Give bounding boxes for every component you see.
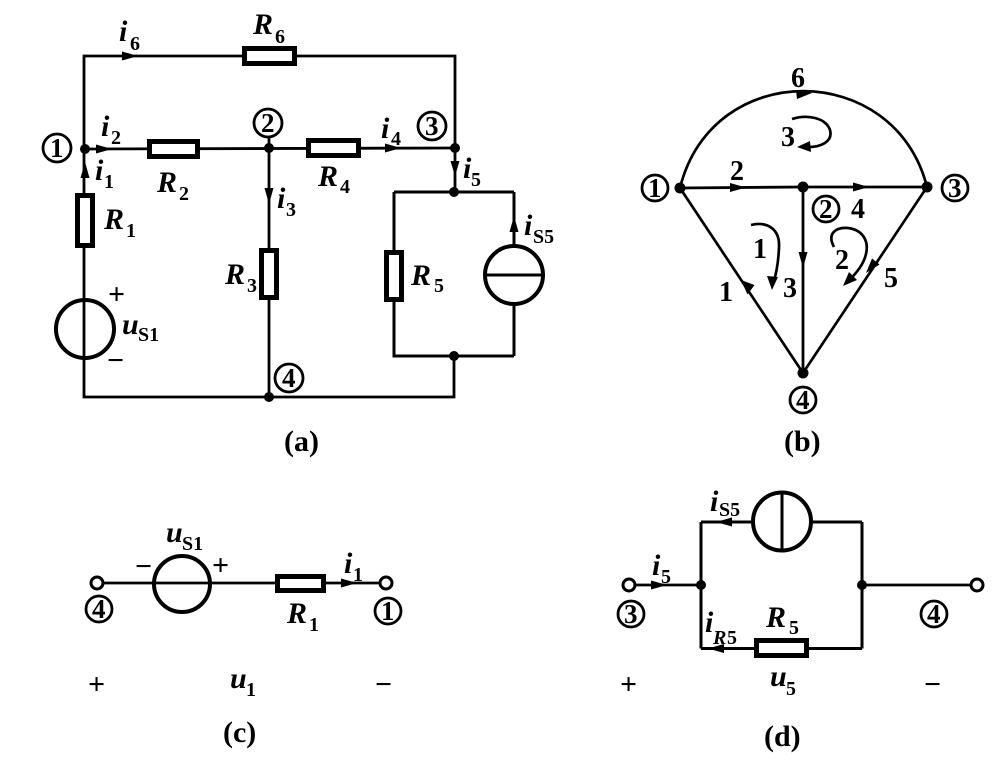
svg-text:S5: S5	[719, 499, 740, 521]
voltage source uS1	[56, 278, 159, 377]
svg-text:2: 2	[111, 127, 121, 149]
junction dot node1	[80, 144, 90, 154]
svg-text:4: 4	[282, 363, 296, 393]
resistor R2	[150, 142, 198, 206]
current arrow iR5 (d)	[705, 606, 737, 653]
svg-text:5: 5	[471, 169, 481, 191]
svg-text:3: 3	[781, 122, 795, 153]
svg-text:3: 3	[624, 599, 638, 629]
graph node dot 1	[675, 183, 686, 194]
svg-text:1: 1	[104, 171, 114, 193]
svg-text:i: i	[524, 209, 533, 242]
current source iS5	[485, 209, 554, 304]
svg-text:1: 1	[381, 596, 395, 626]
svg-text:u: u	[122, 308, 139, 341]
graph node dot 3	[922, 182, 933, 193]
svg-text:4: 4	[340, 176, 350, 198]
svg-text:2: 2	[261, 108, 275, 138]
wire: (d) input with i5	[634, 584, 701, 587]
wire: (d) output	[862, 584, 971, 587]
resistor R5 (d)	[757, 601, 807, 656]
svg-text:6: 6	[791, 63, 805, 94]
node 4 circled (c)	[86, 594, 112, 624]
current arrow i5	[451, 152, 482, 191]
node 2 circled (b)	[813, 194, 839, 224]
svg-text:S1: S1	[182, 533, 203, 555]
graph node dot 2	[798, 182, 809, 193]
resistor R1 (c)	[278, 577, 324, 637]
current arrow iS5 (d)	[710, 485, 740, 527]
loop 1 arrow	[751, 224, 779, 290]
svg-text:1: 1	[309, 614, 319, 636]
current arrow i5 (d)	[651, 549, 671, 590]
svg-text:5: 5	[884, 263, 898, 294]
svg-text:R: R	[286, 597, 307, 630]
junction dot parallel bottom	[449, 351, 459, 361]
svg-text:+: +	[620, 668, 637, 701]
svg-text:u: u	[166, 516, 183, 549]
junction dot parallel top	[449, 187, 459, 197]
node 4 circled (d)	[921, 599, 947, 629]
resistor R4	[309, 141, 359, 199]
current arrow i6	[119, 15, 140, 61]
svg-text:(a): (a)	[284, 425, 319, 458]
svg-text:i: i	[381, 112, 390, 145]
terminal circle right (c)	[380, 577, 392, 589]
svg-text:i: i	[101, 110, 110, 143]
wire: (a) middle horizontal node1-node2-node3	[85, 148, 455, 149]
svg-text:6: 6	[275, 26, 285, 48]
wire: (d) parallel loop	[701, 522, 862, 649]
svg-text:−: −	[924, 668, 941, 701]
terminal circle left (c)	[91, 577, 103, 589]
wire: (c) horizontal	[103, 582, 381, 585]
svg-text:5: 5	[661, 566, 671, 588]
svg-text:5: 5	[727, 627, 737, 649]
node 1 circled	[43, 133, 71, 163]
svg-text:i: i	[95, 154, 104, 187]
resistor R6	[245, 8, 295, 64]
current arrow i4	[381, 112, 401, 153]
svg-text:3: 3	[783, 273, 797, 304]
node 3 circled	[418, 111, 446, 141]
junction dot node3	[450, 143, 460, 153]
node 1 circled (b)	[642, 173, 668, 203]
svg-text:−: −	[107, 344, 124, 377]
svg-text:R: R	[224, 258, 245, 291]
branch 5	[803, 187, 927, 373]
svg-text:4: 4	[927, 599, 941, 629]
junction dot node4	[264, 392, 274, 402]
svg-text:u: u	[230, 662, 247, 695]
svg-text:+: +	[212, 549, 229, 582]
u1 label	[230, 662, 256, 701]
svg-text:4: 4	[851, 194, 865, 225]
svg-text:3: 3	[425, 111, 439, 141]
branch 6 arc	[680, 63, 927, 188]
node 4 circled	[275, 363, 303, 393]
branch 2	[680, 156, 803, 192]
branch 3	[783, 187, 808, 373]
terminal circle left (d)	[623, 579, 635, 591]
node 3 circled (b)	[942, 173, 968, 203]
svg-text:−: −	[375, 668, 392, 701]
svg-text:R: R	[712, 627, 726, 649]
current arrow i3	[265, 182, 297, 221]
svg-text:2: 2	[179, 183, 189, 205]
node 3 circled (d)	[618, 599, 644, 629]
current source iS5 (d)	[753, 493, 811, 551]
terminal circle right (d)	[971, 579, 983, 591]
svg-text:2: 2	[819, 194, 833, 224]
resistor R1	[78, 196, 137, 246]
svg-text:1: 1	[648, 173, 662, 203]
branch 1	[680, 188, 803, 373]
svg-text:5: 5	[789, 617, 799, 639]
u5 label	[770, 660, 796, 700]
node 4 circled (b)	[790, 385, 816, 415]
svg-text:R: R	[410, 259, 431, 292]
svg-text:i: i	[119, 15, 128, 48]
node 1 circled (c)	[375, 596, 401, 626]
current arrow i1	[81, 154, 115, 193]
svg-text:4: 4	[92, 594, 106, 624]
svg-text:R: R	[252, 8, 273, 41]
svg-text:1: 1	[246, 679, 256, 701]
svg-text:4: 4	[796, 385, 810, 415]
node 2 circled	[254, 108, 282, 148]
junction dot right (d)	[857, 580, 867, 590]
svg-text:3: 3	[948, 173, 962, 203]
svg-text:2: 2	[730, 156, 744, 187]
svg-text:R: R	[765, 601, 786, 634]
svg-text:u: u	[770, 660, 787, 693]
junction dot node2	[264, 143, 274, 153]
resistor R3	[224, 251, 277, 298]
svg-text:+: +	[88, 668, 105, 701]
svg-text:(d): (d)	[764, 720, 801, 753]
graph node dot 4	[798, 368, 809, 379]
svg-text:R: R	[317, 160, 338, 193]
resistor R5	[387, 253, 445, 300]
current arrow i1 (c)	[341, 547, 363, 588]
svg-text:+: +	[108, 278, 125, 311]
voltage source uS1 (c)	[135, 516, 229, 612]
svg-text:1: 1	[353, 564, 363, 586]
svg-text:R: R	[156, 166, 177, 199]
svg-text:(b): (b)	[784, 425, 821, 458]
svg-text:i: i	[710, 485, 719, 518]
svg-text:1: 1	[719, 277, 733, 308]
svg-text:S5: S5	[533, 226, 554, 248]
wire: (a) outer loop (left vertical, top, right drop, bottom)	[84, 56, 455, 397]
loop 3 arrow	[781, 117, 830, 153]
svg-text:S1: S1	[138, 324, 159, 346]
svg-text:(c): (c)	[223, 716, 256, 749]
svg-text:1: 1	[126, 220, 136, 242]
svg-text:4: 4	[391, 128, 401, 150]
branch 4	[803, 183, 927, 226]
svg-text:1: 1	[50, 133, 64, 163]
loop 2 arrow	[831, 228, 866, 286]
wire: (a) R3 branch vertical	[268, 148, 271, 397]
svg-text:5: 5	[786, 678, 796, 700]
wire: (a) parallel block rectangle	[394, 192, 514, 356]
svg-text:i: i	[344, 547, 353, 580]
svg-text:1: 1	[753, 234, 767, 265]
svg-text:i: i	[652, 549, 661, 582]
junction dot left (d)	[696, 580, 706, 590]
svg-text:i: i	[277, 182, 286, 215]
svg-text:6: 6	[130, 33, 140, 55]
svg-text:3: 3	[286, 199, 296, 221]
svg-text:5: 5	[434, 275, 444, 297]
svg-text:R: R	[103, 203, 124, 236]
current arrow i2	[96, 110, 121, 154]
svg-text:−: −	[135, 550, 152, 583]
svg-text:2: 2	[835, 245, 849, 276]
svg-text:3: 3	[247, 275, 257, 297]
